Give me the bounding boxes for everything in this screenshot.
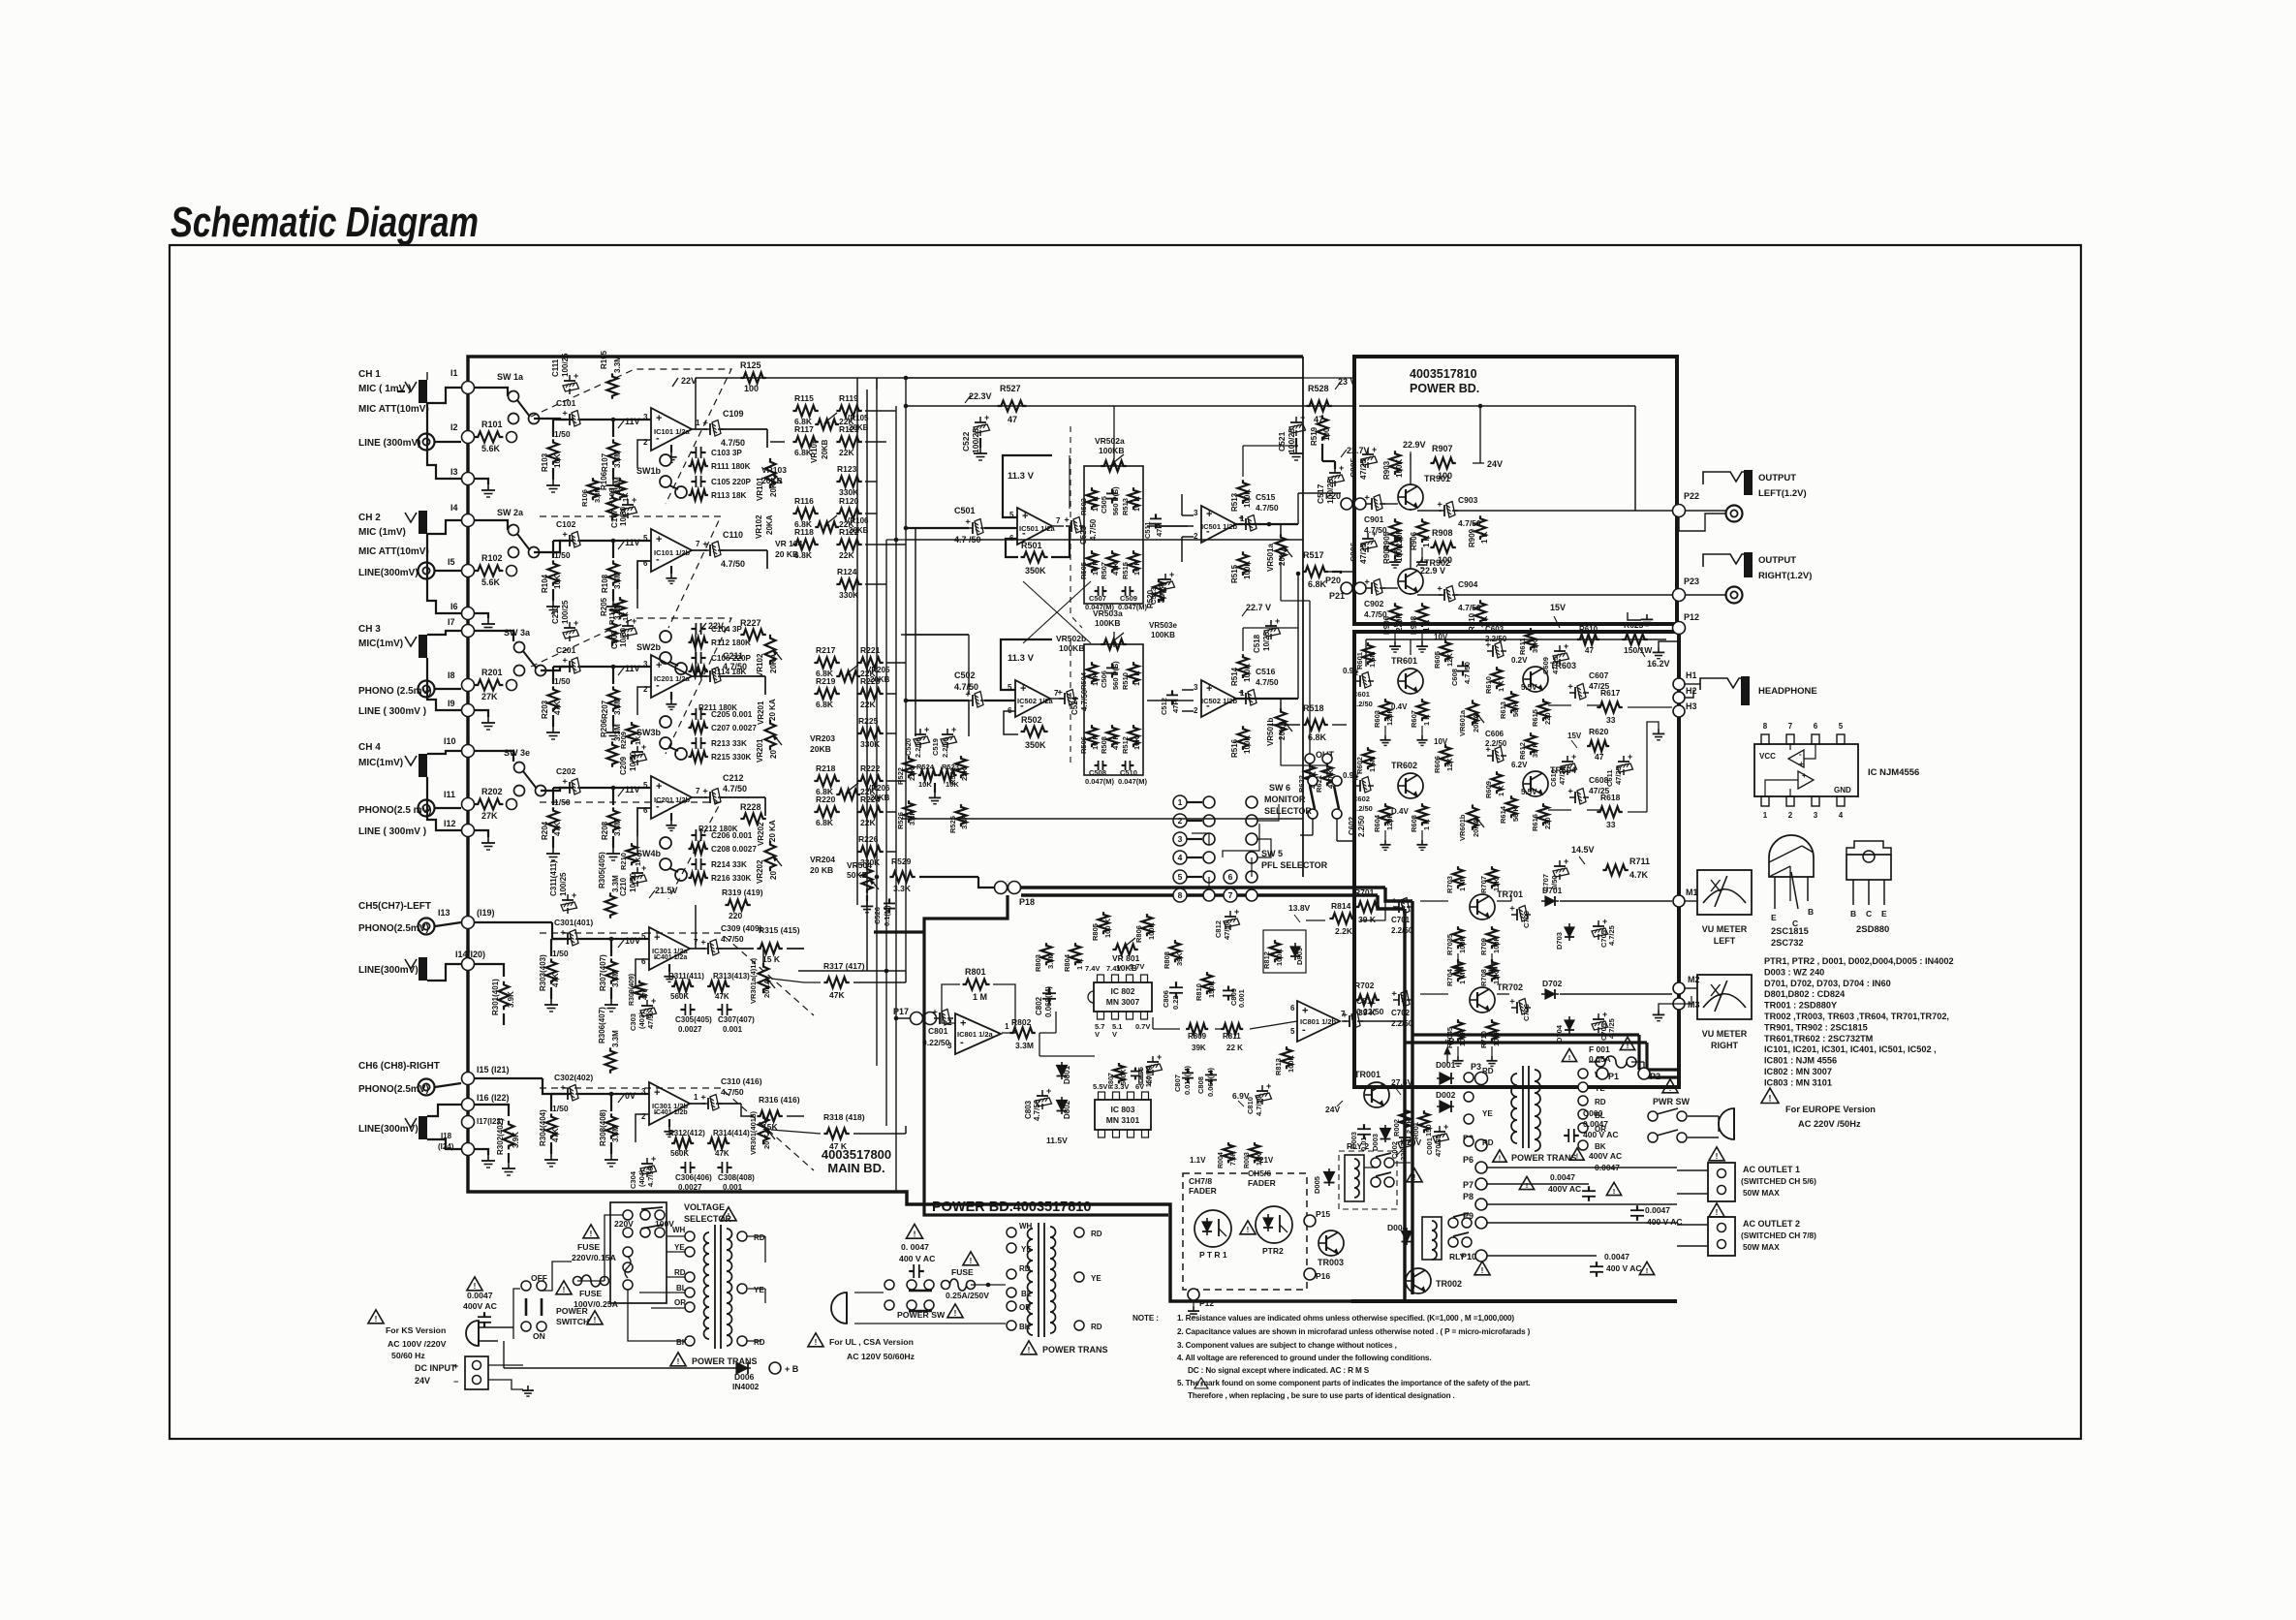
svg-text:R306(407): R306(407) bbox=[598, 1007, 606, 1044]
ground IC201 1/2b bbox=[670, 813, 672, 821]
svg-text:POWER TRANS: POWER TRANS bbox=[1511, 1153, 1577, 1163]
svg-text:IC401 1/2b: IC401 1/2b bbox=[654, 1109, 688, 1116]
svg-text:C519: C519 bbox=[931, 738, 940, 756]
svg-text:47P: 47P bbox=[1171, 701, 1180, 713]
svg-text:R203: R203 bbox=[541, 700, 549, 719]
wire I4 to SW2a bbox=[474, 520, 508, 530]
wire SW3a to C201 bbox=[541, 667, 574, 670]
svg-text:22K: 22K bbox=[860, 700, 876, 709]
svg-text:11.5V: 11.5V bbox=[1046, 1136, 1068, 1145]
wire P23 line bbox=[1455, 594, 1672, 596]
resistor R203 47K for IC201 1/2a bbox=[548, 686, 559, 711]
wire y440 link bbox=[770, 441, 785, 443]
svg-text:47: 47 bbox=[1314, 415, 1323, 424]
svg-text:F 001: F 001 bbox=[1589, 1044, 1610, 1054]
svg-text:1 K: 1 K bbox=[1497, 680, 1505, 692]
svg-text:10V: 10V bbox=[1434, 737, 1448, 746]
resistor R207 3.3M for IC201 1/2a bbox=[608, 686, 619, 711]
svg-text:I12: I12 bbox=[444, 819, 456, 828]
warning triangle RLY1 bbox=[1474, 1262, 1490, 1275]
svg-text:I1: I1 bbox=[450, 368, 458, 378]
resistor R106 3.3M for IC101 1/2b bbox=[607, 494, 618, 519]
svg-text:47/25: 47/25 bbox=[1558, 766, 1567, 785]
svg-text:2.2/50: 2.2/50 bbox=[1391, 926, 1413, 935]
svg-text:1K: 1K bbox=[621, 611, 630, 621]
potentiometer VR502a bbox=[1101, 461, 1126, 472]
resistor R208 3.3M for IC201 1/2b bbox=[608, 807, 619, 832]
svg-text:D003 : WZ 240: D003 : WZ 240 bbox=[1764, 967, 1824, 977]
svg-text:4: 4 bbox=[1839, 811, 1844, 820]
node I5 bbox=[462, 565, 475, 577]
svg-text:100/25: 100/25 bbox=[1287, 428, 1296, 453]
IC802 pins bbox=[1098, 975, 1148, 1019]
svg-text:C110: C110 bbox=[723, 530, 743, 540]
resistor R512 bbox=[1129, 725, 1139, 747]
diode D002 bbox=[1437, 1106, 1454, 1107]
svg-text:MN 3007: MN 3007 bbox=[1106, 997, 1140, 1007]
svg-text:D003: D003 bbox=[1371, 1134, 1380, 1151]
capacitor C608b bbox=[1566, 789, 1589, 805]
svg-text:PTR1, PTR2 , D001, D002,D004,D: PTR1, PTR2 , D001, D002,D004,D005 : IN40… bbox=[1764, 956, 1954, 966]
svg-text:VR102: VR102 bbox=[755, 514, 763, 539]
svg-text:20KA: 20KA bbox=[769, 653, 778, 673]
svg-text:C202: C202 bbox=[556, 766, 576, 776]
svg-text:LINE(300mV): LINE(300mV) bbox=[358, 568, 419, 578]
wire SW4a to C202 bbox=[541, 788, 574, 791]
wire P17 feed bbox=[896, 1017, 910, 1019]
capacitor C903 4.7/50 bbox=[1435, 502, 1458, 518]
svg-text:350K: 350K bbox=[1025, 740, 1046, 750]
resistor R701 39K bbox=[1355, 902, 1380, 913]
svg-text:6.2V: 6.2V bbox=[1511, 761, 1528, 769]
svg-text:+: + bbox=[1234, 907, 1239, 917]
svg-text:R517: R517 bbox=[1303, 550, 1324, 560]
svg-text:B: B bbox=[1808, 907, 1814, 917]
wire I1 to SW1a bbox=[474, 388, 508, 396]
svg-text:100K: 100K bbox=[1243, 735, 1252, 754]
svg-text:4.7K: 4.7K bbox=[1629, 870, 1649, 880]
svg-text:D004: D004 bbox=[1387, 1223, 1408, 1232]
svg-text:10K: 10K bbox=[946, 780, 959, 789]
svg-text:+: + bbox=[641, 863, 646, 873]
svg-text:R107: R107 bbox=[601, 452, 609, 472]
svg-text:TR603: TR603 bbox=[1550, 661, 1576, 670]
svg-text:R904: R904 bbox=[1382, 545, 1391, 564]
node P9 bbox=[1475, 1217, 1487, 1229]
resistor R610 bbox=[1492, 667, 1503, 689]
svg-text:VR201: VR201 bbox=[757, 701, 765, 725]
svg-text:R906: R906 bbox=[1382, 615, 1391, 635]
svg-text:C607: C607 bbox=[1589, 670, 1609, 680]
svg-text:DC : No signal except wher: DC : No signal except where indicated. A… bbox=[1188, 1366, 1370, 1375]
capacitor C206 0.001 bbox=[691, 834, 696, 836]
resistor R601 1.5M bbox=[1363, 642, 1374, 665]
svg-text:VR105: VR105 bbox=[810, 439, 819, 463]
capacitor C309(409) bbox=[698, 940, 722, 956]
svg-text:−: − bbox=[453, 1377, 458, 1386]
capacitor C213 100/25 for IC201 1/2a bbox=[569, 622, 571, 628]
capacitor C702 bbox=[1389, 991, 1412, 1008]
svg-text:3.3M: 3.3M bbox=[611, 1125, 620, 1142]
op-amp IC801 1/2a bbox=[955, 1013, 1001, 1054]
svg-text:SW 3a: SW 3a bbox=[504, 628, 531, 638]
svg-text:I13: I13 bbox=[438, 908, 450, 918]
svg-text:(SWITCHED CH 5/6): (SWITCHED CH 5/6) bbox=[1741, 1176, 1816, 1186]
bus elbow P11 bbox=[1385, 888, 1412, 901]
wire KS tap bottom bbox=[628, 1290, 685, 1341]
ground IC101 1/2a bbox=[670, 445, 672, 452]
svg-text:+: + bbox=[1362, 495, 1372, 500]
wire ch5 out bbox=[690, 948, 705, 950]
warning triangle P1 bbox=[1620, 1037, 1634, 1049]
svg-text:+: + bbox=[656, 413, 662, 424]
svg-text:R808: R808 bbox=[1163, 951, 1171, 969]
dashed outline IC101a bbox=[531, 369, 731, 504]
svg-text:100KB: 100KB bbox=[1059, 643, 1084, 653]
switch SW5 row 1 bbox=[1173, 795, 1257, 809]
node P22 bbox=[1673, 505, 1686, 517]
svg-text:7: 7 bbox=[1228, 890, 1233, 900]
node I6 bbox=[462, 607, 475, 620]
svg-text:R116: R116 bbox=[794, 496, 814, 506]
svg-text:3.3K: 3.3K bbox=[960, 814, 969, 829]
wire phono3 to I8 bbox=[435, 688, 461, 690]
op-amp IC502 1/2b bbox=[1201, 680, 1236, 717]
resistor R108 3.3M for IC101 1/2b bbox=[608, 560, 619, 585]
ground cluster TR901 bbox=[1394, 547, 1396, 557]
svg-text:!: ! bbox=[1646, 1266, 1649, 1275]
svg-text:Therefore , when replacing ,: Therefore , when replacing , be sure to … bbox=[1188, 1391, 1455, 1400]
wire IC501a out to net bbox=[1052, 525, 1064, 527]
wire IC501b in wires bbox=[1182, 514, 1194, 516]
svg-text:R604: R604 bbox=[1373, 814, 1381, 832]
wires inside NJM4556 bbox=[1789, 744, 1791, 750]
svg-text:VR202: VR202 bbox=[756, 859, 764, 884]
svg-text:RD: RD bbox=[1482, 1067, 1494, 1075]
voltage selector box bbox=[610, 1202, 667, 1303]
resistor R311(411) bbox=[671, 981, 694, 992]
svg-text:R524: R524 bbox=[916, 763, 935, 771]
svg-text:8: 8 bbox=[1178, 890, 1183, 900]
transistor package 2SD880 bbox=[1846, 841, 1891, 855]
svg-text:P12: P12 bbox=[1684, 612, 1699, 622]
svg-text:R102: R102 bbox=[481, 553, 503, 563]
svg-text:RD: RD bbox=[1091, 1323, 1102, 1331]
svg-text:C: C bbox=[1866, 909, 1872, 919]
op-amp IC101 1/2b bbox=[651, 529, 692, 572]
svg-text:R606: R606 bbox=[1433, 756, 1442, 773]
resistor R116 bbox=[792, 509, 818, 519]
svg-text:+: + bbox=[1062, 517, 1071, 522]
svg-text:V: V bbox=[1112, 1030, 1117, 1039]
svg-text:R608: R608 bbox=[1410, 815, 1418, 832]
svg-text:R805: R805 bbox=[1091, 923, 1100, 941]
resistor R227 bbox=[740, 630, 765, 640]
svg-text:50W MAX: 50W MAX bbox=[1743, 1242, 1780, 1252]
svg-text:R506: R506 bbox=[1079, 736, 1088, 754]
svg-text:AC OUTLET 1: AC OUTLET 1 bbox=[1743, 1165, 1800, 1174]
svg-text:3.3M: 3.3M bbox=[613, 572, 622, 589]
svg-text:4.7/50: 4.7/50 bbox=[1147, 1066, 1154, 1085]
svg-text:0.22/50: 0.22/50 bbox=[1356, 1007, 1384, 1016]
svg-text:220V: 220V bbox=[614, 1219, 634, 1229]
ground R302 bbox=[508, 1153, 510, 1163]
UL transformer coil right bbox=[1050, 1227, 1056, 1333]
svg-text:MIC(1mV): MIC(1mV) bbox=[358, 639, 403, 649]
svg-text:C103 3P: C103 3P bbox=[711, 449, 742, 457]
svg-text:10 K: 10 K bbox=[1091, 734, 1100, 750]
svg-text:+: + bbox=[560, 658, 570, 663]
switch SW4b bbox=[660, 837, 671, 849]
wire sw5 tap bbox=[1192, 833, 1209, 845]
svg-text:R801: R801 bbox=[965, 967, 986, 977]
svg-text:R214 33K: R214 33K bbox=[711, 860, 747, 869]
capacitor C901 4.7/50 bbox=[1362, 495, 1385, 512]
wire ch5 to bus bbox=[798, 970, 906, 972]
switch SW5 row 5 bbox=[1173, 870, 1257, 884]
svg-text:4003517810: 4003517810 bbox=[1410, 367, 1477, 381]
svg-text:5. The mark found on: 5. The mark found on some component part… bbox=[1177, 1379, 1531, 1387]
svg-text:+: + bbox=[654, 932, 660, 944]
svg-text:VR203: VR203 bbox=[810, 733, 835, 743]
svg-text:+: + bbox=[1022, 511, 1028, 522]
power transformer core bbox=[1522, 1066, 1524, 1148]
CH2 line jack bbox=[419, 563, 435, 579]
svg-text:I4: I4 bbox=[450, 503, 458, 513]
svg-text:1 K: 1 K bbox=[1480, 531, 1489, 544]
svg-text:15V: 15V bbox=[1550, 603, 1566, 612]
svg-text:22V: 22V bbox=[708, 621, 724, 631]
wire P10 line bbox=[1487, 1255, 1597, 1257]
svg-text:10K: 10K bbox=[918, 780, 932, 789]
resistor R809 39K bbox=[1186, 1024, 1208, 1035]
svg-text:1 K: 1 K bbox=[1497, 785, 1505, 796]
svg-text:R217: R217 bbox=[816, 645, 836, 655]
capacitor C108 bbox=[627, 620, 629, 626]
svg-text:21.5V: 21.5V bbox=[655, 886, 678, 895]
svg-text:100KB: 100KB bbox=[1151, 631, 1175, 639]
capacitor C211 bbox=[700, 668, 724, 684]
svg-text:VR102: VR102 bbox=[756, 653, 764, 677]
svg-text:R607: R607 bbox=[1410, 710, 1418, 728]
ground R203 47K bbox=[552, 715, 554, 727]
op-amp U-b inside NJM4556 bbox=[1798, 771, 1814, 789]
svg-text:560K: 560K bbox=[670, 1149, 689, 1158]
potentiometer VR301b bbox=[759, 1114, 769, 1144]
resistor R505 bbox=[1087, 550, 1098, 573]
resistor R223 bbox=[857, 689, 883, 700]
svg-text:6.8K: 6.8K bbox=[816, 700, 834, 709]
resistor R802 bbox=[1009, 1028, 1035, 1039]
svg-text:I5: I5 bbox=[448, 557, 455, 567]
notes text block bbox=[1132, 1314, 1531, 1400]
svg-text:+: + bbox=[1602, 1010, 1607, 1019]
svg-text:11.3 V: 11.3 V bbox=[1008, 471, 1035, 482]
capacitor C611 bbox=[1623, 756, 1625, 762]
transistor TR604 bbox=[1523, 771, 1548, 796]
resistor R111 180K bbox=[688, 461, 707, 472]
diode D702 bbox=[1541, 993, 1559, 995]
svg-text:3. Component values are sub: 3. Component values are subject to chang… bbox=[1177, 1341, 1397, 1350]
resistor R711 bbox=[1602, 865, 1628, 876]
svg-text:R204: R204 bbox=[541, 821, 549, 840]
svg-text:0.0027: 0.0027 bbox=[678, 1025, 702, 1034]
svg-text:100: 100 bbox=[744, 384, 759, 393]
svg-text:0.047(M): 0.047(M) bbox=[1085, 777, 1115, 786]
capacitor C210 bbox=[636, 867, 638, 873]
outer border frame bbox=[170, 245, 2081, 1439]
resistor R314(414) bbox=[707, 1138, 729, 1149]
svg-text:POWER BD.: POWER BD. bbox=[1410, 382, 1479, 395]
wire UL fuse to trans bbox=[971, 1284, 1006, 1286]
op-amp IC301 1/2a bbox=[649, 927, 690, 970]
resistor R609 bbox=[1492, 771, 1503, 794]
node I3 bbox=[462, 473, 475, 485]
svg-text:R227: R227 bbox=[740, 618, 761, 628]
svg-text:AC 120V 50/60Hz: AC 120V 50/60Hz bbox=[847, 1352, 915, 1361]
svg-text:C111: C111 bbox=[551, 358, 560, 377]
capacitor C109 bbox=[700, 421, 724, 437]
svg-text:SWITCH: SWITCH bbox=[556, 1317, 589, 1326]
VU meter right bbox=[1697, 975, 1752, 1019]
output right jack bbox=[1703, 554, 1744, 567]
svg-text:(SWITCHED CH 7/8): (SWITCHED CH 7/8) bbox=[1741, 1231, 1816, 1240]
wire KS bottom rail bbox=[504, 1367, 734, 1369]
svg-text:2SC1815: 2SC1815 bbox=[1771, 926, 1809, 936]
transistor TR002 bbox=[1406, 1268, 1431, 1293]
svg-text:100K: 100K bbox=[1275, 948, 1284, 966]
svg-text:7.5K: 7.5K bbox=[1230, 1151, 1237, 1166]
svg-text:CH 2: CH 2 bbox=[358, 513, 381, 523]
svg-text:R125: R125 bbox=[740, 360, 761, 370]
resistor R803 3.3M bbox=[1041, 943, 1052, 965]
svg-text:SELECTOR: SELECTOR bbox=[1264, 806, 1312, 816]
node P12 edge bbox=[1673, 622, 1686, 635]
svg-text:!: ! bbox=[1568, 1053, 1571, 1062]
svg-text:4. All voltage are referenc: 4. All voltage are referenced to ground … bbox=[1177, 1354, 1431, 1362]
resistor R307(407) 3.3M for IC301 1/2a bbox=[606, 958, 617, 983]
svg-text:FUSE: FUSE bbox=[951, 1267, 974, 1277]
resistor R909 1K bbox=[1475, 515, 1486, 540]
UL transformer taps left bbox=[1007, 1228, 1016, 1237]
svg-text:R313(413): R313(413) bbox=[713, 972, 750, 981]
wire KS plug bbox=[479, 1326, 513, 1328]
svg-text:!: ! bbox=[594, 1316, 597, 1324]
svg-text:3.3M: 3.3M bbox=[613, 819, 622, 836]
svg-text:47 K: 47 K bbox=[1111, 734, 1120, 750]
svg-text:RD: RD bbox=[1482, 1138, 1494, 1147]
wire SW6 down bbox=[1312, 819, 1314, 835]
svg-text:10V: 10V bbox=[625, 936, 640, 946]
node I15 bbox=[462, 1073, 475, 1085]
svg-text:+ B: + B bbox=[785, 1364, 799, 1374]
capacitor C606 bbox=[1483, 747, 1506, 763]
svg-text:22K: 22K bbox=[960, 767, 969, 781]
svg-text:+: + bbox=[574, 618, 578, 628]
svg-text:C520: C520 bbox=[904, 738, 913, 756]
svg-text:0.0047: 0.0047 bbox=[1595, 1163, 1620, 1172]
svg-text:IC501 1/2a: IC501 1/2a bbox=[1019, 524, 1056, 533]
capacitor C104 3P bbox=[691, 628, 696, 630]
svg-text:10K: 10K bbox=[553, 575, 562, 589]
svg-text:100K: 100K bbox=[1243, 561, 1252, 579]
svg-text:R703: R703 bbox=[1445, 876, 1454, 893]
svg-text:+: + bbox=[698, 940, 708, 945]
svg-text:I11: I11 bbox=[444, 790, 455, 799]
potentiometer VR102 20KA bbox=[765, 635, 776, 665]
svg-text:R903: R903 bbox=[1382, 460, 1391, 480]
node I18 bbox=[462, 1143, 475, 1156]
svg-text:R7035: R7035 bbox=[1445, 934, 1454, 955]
svg-text:47K: 47K bbox=[1111, 562, 1120, 576]
wire R514 top bbox=[1242, 628, 1244, 651]
svg-text:R004: R004 bbox=[1218, 1152, 1225, 1168]
svg-text:P15: P15 bbox=[1316, 1209, 1330, 1219]
svg-text:P2: P2 bbox=[1650, 1072, 1660, 1081]
wire CH3 mic to I7 bbox=[427, 631, 462, 635]
svg-text:R614: R614 bbox=[1499, 805, 1507, 824]
resistor R508 bbox=[1107, 725, 1118, 747]
node P8 bbox=[1475, 1199, 1487, 1210]
svg-text:R316 (416): R316 (416) bbox=[759, 1095, 800, 1105]
svg-text:20: 20 bbox=[769, 750, 778, 759]
svg-text:C507: C507 bbox=[1089, 594, 1106, 603]
svg-text:C109: C109 bbox=[723, 409, 744, 419]
resistor R515 100K bbox=[1238, 551, 1249, 576]
svg-text:R205: R205 bbox=[600, 597, 608, 616]
capacitor C102 1/50 (input coupling) for IC101 1/2b bbox=[560, 532, 583, 548]
svg-text:7.4V: 7.4V bbox=[1085, 964, 1100, 973]
potentiometer VR601a bbox=[1468, 700, 1478, 725]
capacitor C809 bbox=[1223, 985, 1234, 1000]
resistor R304(404) 47K for IC301 1/2b bbox=[546, 1113, 557, 1138]
svg-text:!: ! bbox=[563, 1286, 566, 1294]
capacitor C510 bbox=[1122, 764, 1126, 766]
node H1 bbox=[1673, 678, 1685, 690]
svg-text:BL: BL bbox=[676, 1284, 687, 1293]
svg-text:OUTPUT: OUTPUT bbox=[1758, 473, 1796, 483]
svg-text:24V: 24V bbox=[1487, 459, 1503, 469]
CH3 mic jack bbox=[419, 635, 427, 658]
wire C515 out bbox=[1257, 523, 1269, 525]
resistor R708 12K bbox=[1487, 959, 1498, 981]
semiconductor parts list text bbox=[1764, 956, 1954, 1087]
svg-text:POWER: POWER bbox=[556, 1306, 589, 1316]
svg-text:2.2/50: 2.2/50 bbox=[1357, 815, 1366, 837]
svg-text:R709: R709 bbox=[1479, 938, 1488, 955]
svg-text:20KB: 20KB bbox=[849, 526, 869, 535]
svg-text:2.2K: 2.2K bbox=[1335, 926, 1353, 936]
resistor R112 180K bbox=[688, 638, 707, 648]
diode D803 bbox=[1290, 943, 1300, 960]
svg-text:10 K: 10 K bbox=[1132, 670, 1141, 686]
transformer taps right bbox=[1578, 1069, 1588, 1078]
svg-text:0.0047: 0.0047 bbox=[1583, 1119, 1608, 1129]
resistor R525 bbox=[956, 804, 967, 826]
op-amp IC301 1/2b bbox=[649, 1082, 690, 1125]
wire DC input bbox=[488, 1364, 523, 1366]
svg-text:7: 7 bbox=[1056, 516, 1061, 525]
resistor R613 56K bbox=[1506, 691, 1517, 713]
svg-text:R210: R210 bbox=[619, 853, 628, 870]
svg-text:5: 5 bbox=[1839, 722, 1844, 731]
resistor R114 18K bbox=[688, 667, 707, 677]
svg-text:SELECTOR: SELECTOR bbox=[684, 1214, 731, 1224]
wire input to IC301 1/2a bbox=[578, 938, 649, 940]
node H3 bbox=[1673, 705, 1685, 717]
svg-text:IC NJM4556: IC NJM4556 bbox=[1868, 767, 1919, 778]
svg-text:C807: C807 bbox=[1173, 1075, 1182, 1092]
